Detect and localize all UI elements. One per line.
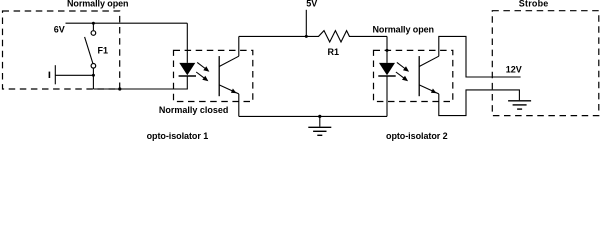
phototransistor of opto2: collector <box>419 56 439 66</box>
light arrow 1 of opto1 <box>197 62 205 68</box>
wire: opto2 cathode down to ground rail <box>386 76 388 116</box>
svg-text:6V: 6V <box>54 24 65 34</box>
LED of opto1: anode wire <box>186 23 188 63</box>
phototransistor of opto1: emitter <box>219 85 239 94</box>
svg-text:F1: F1 <box>98 45 109 55</box>
ground symbol (strobe) <box>508 100 531 102</box>
resistor R1 <box>306 31 387 42</box>
svg-text:Normally closed: Normally closed <box>159 105 229 115</box>
phototransistor of opto1: base bar <box>218 56 220 96</box>
LED of opto2: triangle <box>379 63 395 75</box>
ground symbol (middle) <box>319 116 321 126</box>
light arrow 2 of opto1 <box>196 72 204 78</box>
wire: opto1 emitter down to ground rail <box>238 94 240 117</box>
svg-text:Normally open: Normally open <box>373 24 434 34</box>
LED of opto1: cathode bar <box>179 75 196 77</box>
LED of opto1: triangle <box>179 63 195 75</box>
svg-text:R1: R1 <box>328 47 340 57</box>
phototransistor of opto2: emitter <box>419 85 439 94</box>
wire: 6V rail to LED anode <box>66 22 188 24</box>
wire: ground rail <box>239 115 387 117</box>
svg-text:12V: 12V <box>506 65 522 75</box>
wire: 5V lead <box>305 10 307 37</box>
wire: battery to switch bottom <box>55 74 93 76</box>
switch F1 <box>91 31 96 36</box>
node: dot at middle ground <box>318 115 321 118</box>
svg-text:Normally open: Normally open <box>67 0 128 9</box>
wire: opto2 emitter down to strobe ground <box>439 90 520 116</box>
node: junction battery/switch <box>92 74 95 77</box>
svg-text:Strobe: Strobe <box>519 0 549 9</box>
wire: collector rail to 5V node <box>239 35 306 37</box>
wire: opto1 collector up to rail <box>238 36 240 56</box>
node: 5V junction <box>305 35 308 38</box>
enclosure box: Strobe (dashed) <box>492 11 599 116</box>
wire: rail down to switch top <box>92 23 94 30</box>
wire: return to opto1 LED cathode <box>93 76 187 89</box>
opto-isolator 2 dashed box <box>374 50 453 101</box>
phototransistor of opto2: base bar <box>418 56 420 96</box>
light arrow 1 of opto2 <box>397 62 405 68</box>
opto-isolator 1 dashed box <box>174 50 253 101</box>
node: dot at box corner <box>118 87 121 90</box>
node: junction rail/switch <box>92 22 95 25</box>
wire: switch bottom down <box>92 68 94 89</box>
light arrow 2 of opto2 <box>396 72 404 78</box>
svg-text:opto-isolator 2: opto-isolator 2 <box>386 131 448 141</box>
battery 6V cell <box>48 72 50 78</box>
svg-text:opto-isolator 1: opto-isolator 1 <box>147 131 209 141</box>
svg-text:5V: 5V <box>306 0 317 9</box>
enclosure box: switch unit (dashed) <box>3 11 120 89</box>
LED of opto2: cathode bar <box>378 75 395 77</box>
wire: opto2 collector up and to strobe 12V <box>439 36 521 77</box>
node: dot at opto2 box edge <box>386 49 389 52</box>
wire: R1 to opto2 LED anode <box>386 36 388 63</box>
phototransistor of opto1: collector <box>219 56 239 66</box>
